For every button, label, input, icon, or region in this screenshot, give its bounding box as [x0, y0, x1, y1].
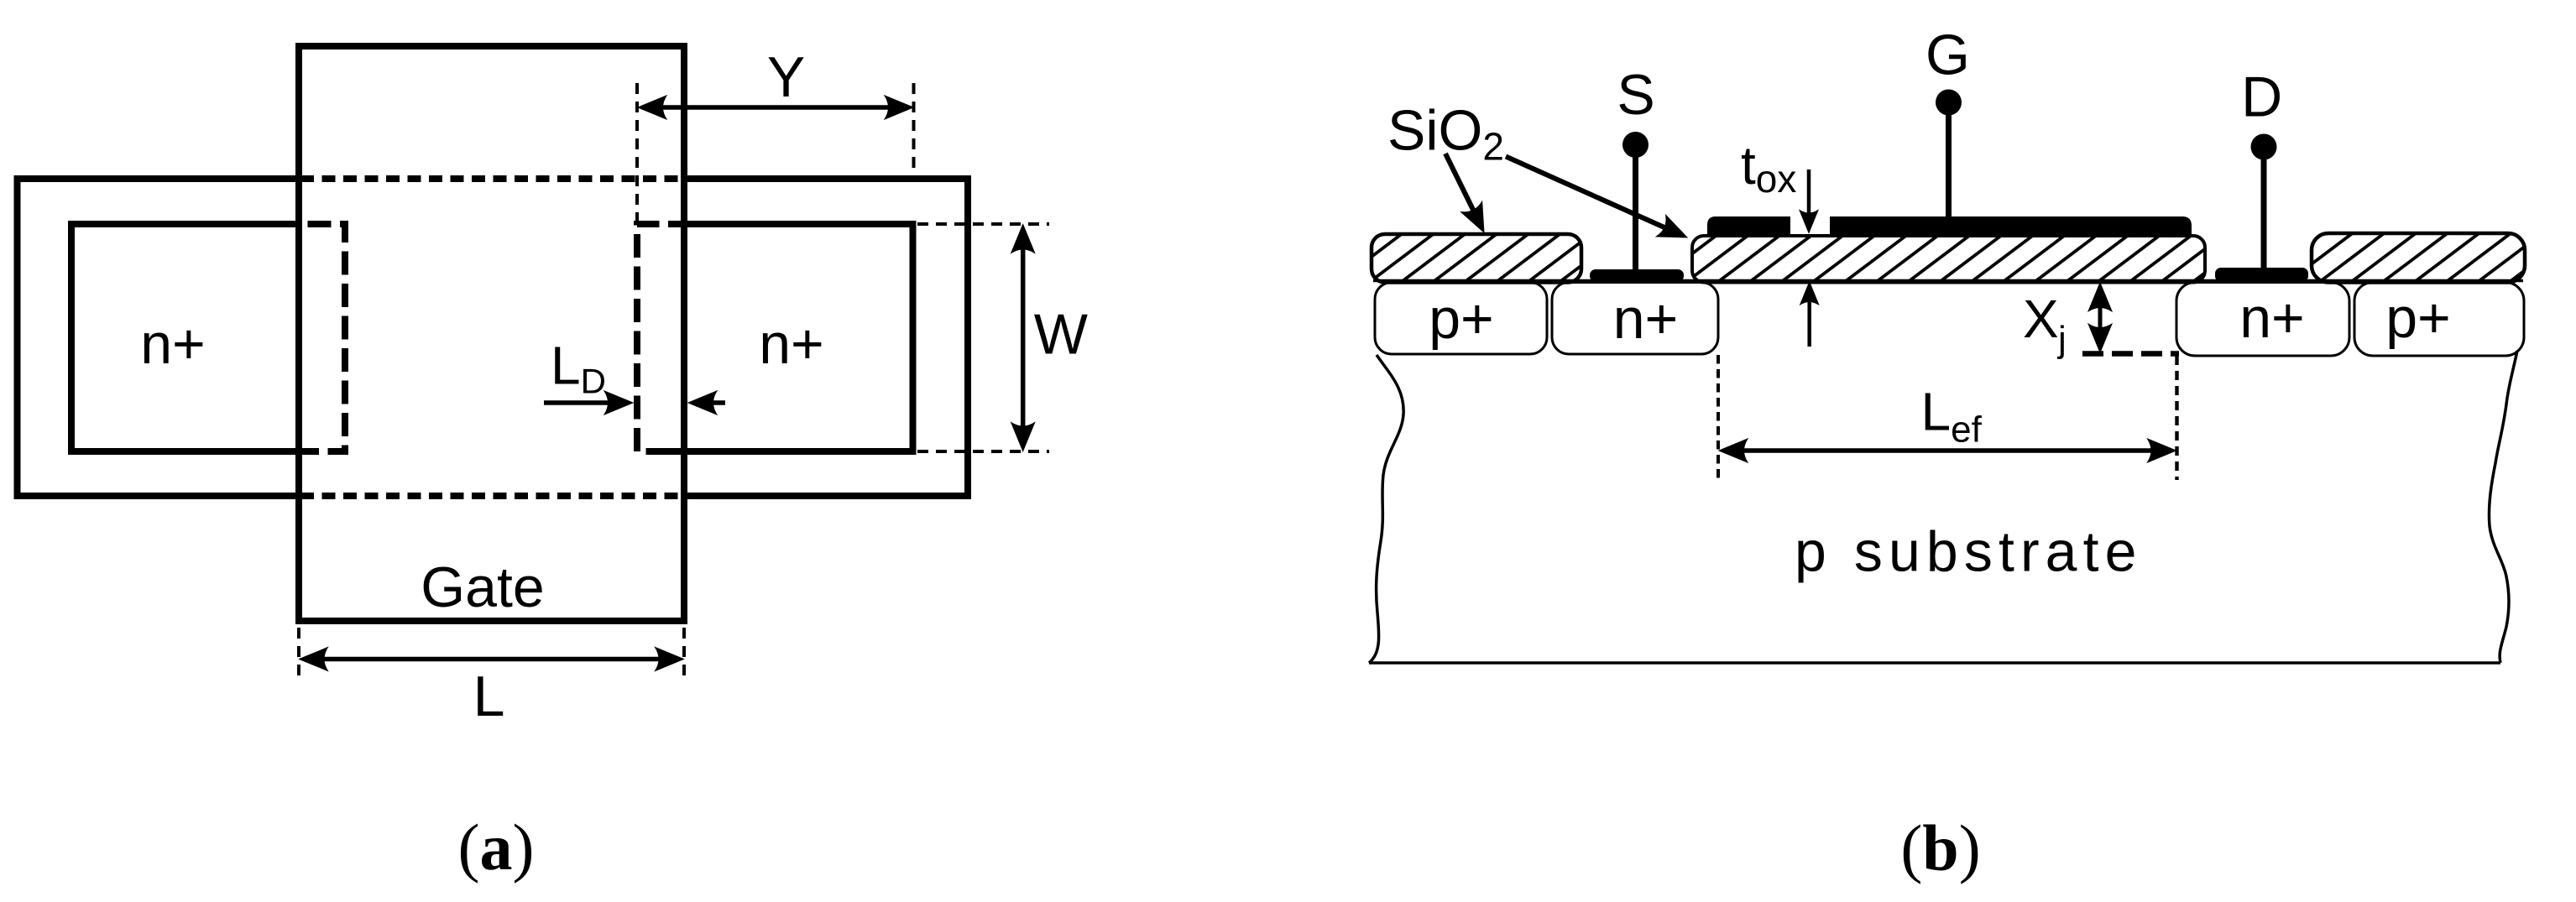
- gate electrode bar, left segment: [1707, 216, 1790, 237]
- p+ well box right: [2354, 283, 2524, 357]
- active-area band hidden top edge under gate (dashed): [300, 175, 682, 182]
- X_j extension dashes: [2082, 351, 2179, 357]
- FIGURE B: [1369, 23, 2525, 884]
- dimension arrow L: [300, 648, 684, 671]
- svg-text:p substrate: p substrate: [1795, 520, 2143, 584]
- svg-text:n+: n+: [140, 312, 206, 376]
- dimension arrow L_ef: [1719, 439, 2176, 462]
- dimension arrow Y: [638, 96, 913, 119]
- gate rectangle: [299, 46, 684, 621]
- gate terminal dot: [1936, 90, 1962, 116]
- active-area band hidden bottom edge under gate (dashed): [300, 493, 682, 499]
- source terminal dot: [1622, 132, 1649, 158]
- n+ drain diffusion rectangle (right): [668, 224, 913, 451]
- n+ source hidden edge under gate (dashed): [300, 224, 345, 451]
- L_ef extension line right: [2175, 356, 2178, 480]
- n+ drain box: [2176, 283, 2349, 357]
- svg-text:n+: n+: [759, 312, 824, 376]
- dimension arrows L_D: [544, 391, 725, 415]
- svg-text:n+: n+: [1613, 287, 1679, 351]
- svg-text:Gate: Gate: [421, 555, 544, 619]
- X_j dimension arrow: [2088, 283, 2112, 352]
- svg-text:L: L: [473, 665, 505, 728]
- field oxide block right (SiO2, hatched): [2312, 233, 2525, 283]
- n+ source diffusion rectangle (left): [71, 224, 299, 451]
- n+ drain hidden edge under gate (dashed): [637, 224, 668, 451]
- extension line for W dimension, bottom: [917, 450, 1049, 453]
- drain contact bar: [2215, 268, 2308, 282]
- svg-text:(b): (b): [1900, 811, 1980, 884]
- svg-text:G: G: [1925, 23, 1970, 87]
- drain terminal dot: [2251, 134, 2277, 160]
- dimension arrow W: [1011, 225, 1035, 451]
- t_ox arrow above (pointing down to oxide top): [1800, 169, 1818, 233]
- svg-text:n+: n+: [2239, 286, 2305, 350]
- extension line for Y dimension, right: [912, 83, 916, 176]
- svg-text:Y: Y: [767, 45, 805, 109]
- active-area band, left solid part (source metal): [18, 179, 300, 496]
- active-area band, right solid part (drain metal): [684, 179, 968, 496]
- extension line for W dimension, top: [917, 222, 1049, 226]
- source terminal stem: [1633, 156, 1638, 270]
- leader arrow from SiO2 to field oxide: [1445, 154, 1495, 237]
- extension line for Y dimension, left: [635, 83, 639, 222]
- svg-text:D: D: [2241, 65, 2282, 129]
- gate electrode bar, right segment: [1830, 216, 2192, 237]
- t_ox arrow below (pointing up to oxide bottom): [1800, 282, 1819, 347]
- substrate bottom edge: [1369, 661, 2500, 665]
- substrate right torn edge: [2489, 351, 2517, 663]
- n+ source box: [1552, 283, 1718, 355]
- silicon surface line: [1373, 279, 2523, 283]
- L_ef extension line left: [1716, 355, 1720, 480]
- svg-text:p+: p+: [2385, 286, 2451, 350]
- p+ well box left: [1375, 283, 1547, 355]
- gate oxide bar (SiO2, hatched): [1692, 236, 2205, 283]
- svg-text:(a): (a): [458, 811, 535, 884]
- svg-text:p+: p+: [1429, 287, 1494, 351]
- svg-text:S: S: [1617, 63, 1654, 127]
- drain terminal stem: [2261, 159, 2267, 268]
- field oxide block left (SiO2, hatched): [1372, 234, 1581, 283]
- svg-text:X: X: [2023, 289, 2059, 349]
- source contact bar: [1590, 269, 1684, 282]
- svg-text:j: j: [2056, 319, 2067, 360]
- substrate left torn edge: [1369, 355, 1403, 663]
- extension line for L dimension, left: [297, 628, 300, 681]
- extension line for L dimension, right: [682, 628, 686, 681]
- gate terminal stem: [1946, 114, 1952, 216]
- leader arrow from SiO2 to gate oxide: [1506, 157, 1692, 248]
- svg-text:W: W: [1034, 303, 1088, 367]
- FIGURE A: [18, 45, 1088, 884]
